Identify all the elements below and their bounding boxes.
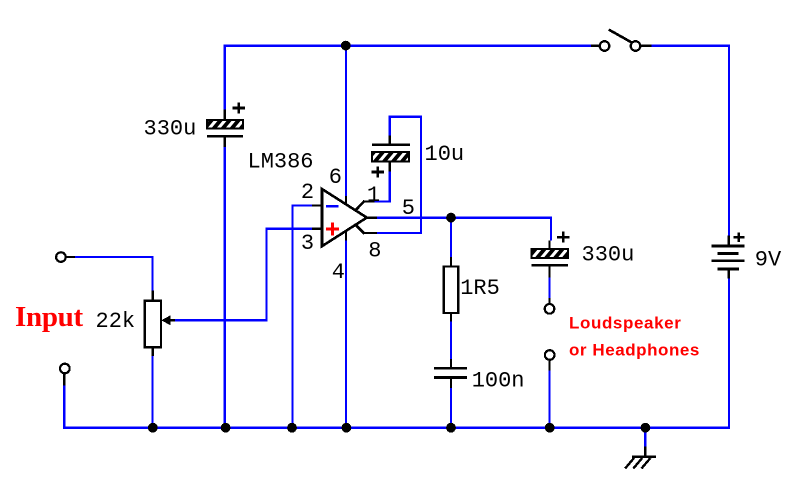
wire input top horizontal <box>75 256 154 258</box>
svg-text:3: 3 <box>301 231 314 256</box>
capacitor C2 10u upper plain plate <box>372 143 410 146</box>
svg-text:330u: 330u <box>144 117 197 142</box>
wire pin3 horizontal <box>265 227 312 229</box>
capacitor C2 plus sign <box>372 167 384 178</box>
op-amp minus sign <box>326 205 338 208</box>
pin 1 stub (diagonal + horizontal) <box>355 201 375 211</box>
wire R1 bottom to C4 <box>450 322 452 359</box>
resistor R1 1R5 bottom lead <box>450 313 452 322</box>
switch S1 right terminal <box>631 41 641 51</box>
switch S1 left stub <box>591 44 599 46</box>
pin 2 stub <box>312 204 323 206</box>
capacitor C1 330u top lead <box>223 110 225 122</box>
junction node rail at pin2 wire <box>287 423 297 433</box>
battery B1 top lead <box>728 236 730 246</box>
capacitor C1 plus sign <box>232 103 244 114</box>
svg-text:330u: 330u <box>582 243 635 268</box>
potentiometer VR1 22k body <box>145 301 161 348</box>
potentiometer VR1 wiper arrow <box>161 315 175 325</box>
resistor R1 1R5 body <box>444 267 459 314</box>
ground bar <box>632 456 656 458</box>
wire VR1 bottom vertical to rail <box>151 356 153 427</box>
svg-text:10u: 10u <box>425 142 465 167</box>
svg-text:22k: 22k <box>96 309 136 334</box>
junction node rail at ground <box>641 423 651 433</box>
capacitor C3 330u lower plate <box>532 264 569 267</box>
battery B1 plate long top <box>711 245 744 248</box>
wire output corner vertical down to C3 <box>550 216 552 240</box>
wire pin2 vertical to rail <box>291 204 293 427</box>
input lower terminal <box>60 364 70 374</box>
resistor R1 1R5 top lead <box>450 257 452 267</box>
switch S1 lever <box>609 30 632 43</box>
ground diagonal 3 <box>642 458 651 469</box>
wire pin4 vertical to bottom rail <box>345 241 347 428</box>
wire C4 bottom to rail <box>450 388 452 427</box>
wire pin8 horizontal to loop <box>377 232 422 234</box>
capacitor C3 330u hatched plate <box>532 249 569 258</box>
input upper terminal <box>56 252 66 262</box>
wire right vertical below battery <box>728 279 730 429</box>
wire pin1 horizontal blue <box>375 200 392 202</box>
junction node rail at pin4 wire <box>342 423 352 433</box>
svg-text:or Headphones: or Headphones <box>569 341 700 360</box>
capacitor C2 10u hatched plate <box>372 152 409 162</box>
battery B1 plate short <box>718 252 739 255</box>
pin 3 stub <box>312 227 323 229</box>
battery B1 bottom lead <box>728 269 730 279</box>
capacitor C4 100n top lead <box>450 359 452 368</box>
svg-text:Loudspeaker: Loudspeaker <box>569 313 681 332</box>
wire top rail left <box>224 44 592 46</box>
junction node rail at C1 <box>221 423 231 433</box>
speaker lower terminal stub <box>548 360 550 370</box>
wire wiper horizontal to pot <box>175 319 268 321</box>
input upper terminal stub <box>67 256 76 258</box>
wire C2 top vertical <box>389 116 391 136</box>
capacitor C4 100n bottom plate <box>434 376 467 379</box>
junction node rail at speaker <box>545 423 555 433</box>
svg-text:Input: Input <box>15 301 83 333</box>
pin 4 stub <box>345 230 347 241</box>
wire left vertical above C1 <box>223 44 225 109</box>
input lower terminal stub <box>63 374 65 386</box>
svg-text:1R5: 1R5 <box>460 276 500 301</box>
switch S1 right stub <box>641 44 652 46</box>
battery B1 plus sign <box>734 232 745 242</box>
capacitor C4 100n top plate <box>434 367 467 370</box>
capacitor C3 plus sign <box>557 232 569 243</box>
wire ground stub <box>644 428 646 447</box>
capacitor C2 10u bottom lead <box>389 162 391 172</box>
svg-text:8: 8 <box>368 239 381 264</box>
capacitor C2 10u top lead <box>389 135 391 144</box>
wire bottom rail <box>63 427 730 429</box>
svg-text:100n: 100n <box>472 368 525 393</box>
wire C3 bottom to speaker terminal <box>548 278 550 298</box>
svg-text:LM386: LM386 <box>248 149 314 174</box>
svg-text:9V: 9V <box>755 247 782 272</box>
wire input top vertical down to VR1 <box>151 256 153 291</box>
wire bottom-left vertical from input lower terminal <box>63 386 65 429</box>
svg-text:5: 5 <box>402 196 415 221</box>
battery B1 plate long <box>711 259 744 262</box>
wire junction down to R1 <box>450 218 452 257</box>
junction node rail at VR1 <box>148 423 158 433</box>
wire pin6 vertical from top rail <box>345 45 347 196</box>
wire pin5 output horizontal <box>377 216 552 218</box>
switch S1 left terminal <box>600 41 610 51</box>
pin 8 stub (diagonal + horizontal) <box>355 224 377 234</box>
capacitor C3 330u bottom lead <box>548 265 550 278</box>
ground lead <box>644 447 646 458</box>
op-amp U1 LM386 triangle <box>322 189 367 246</box>
wire speaker bottom terminal to rail <box>548 371 550 427</box>
wire right vertical above battery <box>728 44 730 235</box>
potentiometer VR1 22k top lead <box>152 291 154 301</box>
wire pin3 vertical <box>265 227 267 321</box>
wire left vertical below C1 to bottom rail <box>223 147 225 428</box>
ground diagonal 2 <box>633 458 642 469</box>
speaker upper terminal <box>545 304 555 314</box>
capacitor C1 330u bottom lead <box>223 136 225 147</box>
capacitor C3 330u top lead <box>548 241 550 250</box>
junction node rail at C4 <box>446 423 456 433</box>
svg-text:6: 6 <box>329 165 342 190</box>
wire C2 loop right vertical <box>420 116 422 235</box>
svg-text:2: 2 <box>301 180 314 205</box>
ground diagonal 1 <box>625 458 634 469</box>
potentiometer VR1 22k bottom lead <box>152 347 154 356</box>
svg-text:1: 1 <box>367 183 380 208</box>
wire top rail right of switch <box>652 44 731 46</box>
capacitor C1 330u lower plate <box>207 135 243 138</box>
svg-text:4: 4 <box>332 260 345 285</box>
wire C2 loop top horizontal <box>389 115 423 117</box>
speaker lower terminal <box>545 350 555 360</box>
capacitor C1 330u hatched plate <box>207 120 243 128</box>
wire pin1 vertical up to C2 <box>389 171 391 202</box>
speaker upper terminal stub <box>548 298 550 304</box>
pin 5 stub <box>365 216 377 218</box>
wire pin2 horizontal <box>291 204 312 206</box>
capacitor C4 100n bottom lead <box>450 378 452 388</box>
battery B1 plate short bottom <box>718 268 739 271</box>
junction node output / R1 <box>446 213 456 223</box>
junction node top rail / pin6 <box>341 41 351 51</box>
op-amp plus sign (red) <box>326 223 339 236</box>
pin 6 stub <box>345 196 347 206</box>
